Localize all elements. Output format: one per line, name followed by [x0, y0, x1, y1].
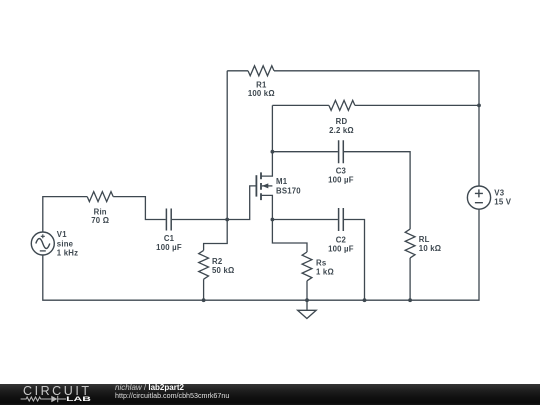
svg-text:2.2 kΩ: 2.2 kΩ: [329, 126, 354, 135]
svg-text:RD: RD: [336, 117, 348, 126]
svg-text:Rs: Rs: [316, 258, 327, 267]
svg-text:10 kΩ: 10 kΩ: [419, 244, 441, 253]
svg-text:RL: RL: [419, 235, 430, 244]
svg-text:100 kΩ: 100 kΩ: [248, 89, 275, 98]
svg-text:100 µF: 100 µF: [328, 244, 354, 253]
svg-text:70 Ω: 70 Ω: [91, 216, 109, 225]
svg-text:V1: V1: [57, 230, 67, 239]
svg-text:1 kHz: 1 kHz: [57, 248, 78, 257]
svg-text:100 µF: 100 µF: [328, 175, 354, 184]
svg-text:1 kΩ: 1 kΩ: [316, 267, 334, 276]
svg-text:Rin: Rin: [94, 207, 107, 216]
svg-text:sine: sine: [57, 239, 74, 248]
svg-text:R2: R2: [212, 257, 223, 266]
svg-text:V3: V3: [494, 189, 504, 198]
svg-text:C1: C1: [164, 234, 175, 243]
svg-text:M1: M1: [276, 177, 288, 186]
svg-text:BS170: BS170: [276, 187, 301, 196]
svg-text:100 µF: 100 µF: [156, 243, 182, 252]
svg-text:50 kΩ: 50 kΩ: [212, 266, 234, 275]
svg-text:C2: C2: [336, 235, 347, 244]
svg-text:LAB: LAB: [66, 396, 91, 403]
svg-text:C3: C3: [336, 166, 347, 175]
svg-text:15 V: 15 V: [494, 198, 511, 207]
